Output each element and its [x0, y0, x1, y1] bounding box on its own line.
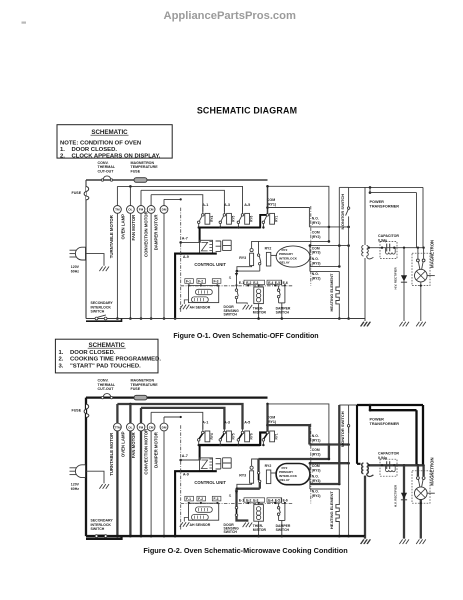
- fig1 motor OL circle: [129, 186, 131, 205]
- fig1 ground HV rectifier: [399, 322, 409, 327]
- fig2 ground HV rectifier: [399, 539, 409, 544]
- fig1 ground at plug: [99, 267, 109, 272]
- fig2 terminals F-1 F-2 F-3: [185, 496, 194, 501]
- svg-text:RY6: RY6: [250, 433, 254, 439]
- fig2 heating element: [336, 489, 339, 536]
- fig2 wire bus riser to RY1: [260, 433, 266, 447]
- note box 1: [57, 125, 172, 158]
- svg-text:RY1: RY1: [275, 216, 279, 222]
- svg-text:A-9: A-9: [183, 255, 189, 259]
- fig1 wire feed to relay chain: [268, 186, 329, 227]
- svg-text:(RY3): (RY3): [312, 479, 321, 483]
- fig2 terminals E row: [244, 498, 265, 502]
- fig1 wire magnetron cathode to ground: [420, 282, 422, 321]
- svg-text:COM: COM: [312, 448, 320, 452]
- svg-text:(RY1): (RY1): [312, 221, 321, 225]
- svg-text:N.O.: N.O.: [312, 272, 319, 276]
- fig1 ground AH sensor: [180, 305, 190, 310]
- svg-text:COM: COM: [312, 464, 320, 468]
- fig2 conv thermal cut-out symbol: [101, 396, 103, 398]
- fig1 wire transformer left to ground: [364, 258, 366, 321]
- svg-text:CONTROL UNIT: CONTROL UNIT: [194, 480, 226, 485]
- fig1 wire bus riser to RY1: [260, 215, 266, 229]
- fig1 ground door sensing switch: [243, 305, 253, 310]
- fig1 wire bottom bus: [86, 318, 365, 320]
- fig1 motor CM circle: [150, 195, 152, 206]
- svg-text:DM: DM: [162, 208, 167, 212]
- svg-text:1.: 1.: [59, 350, 64, 356]
- svg-text:SWITCH: SWITCH: [224, 530, 238, 534]
- svg-text:SWITCH: SWITCH: [91, 527, 105, 531]
- fig2 wire COM(RY3) line: [310, 462, 349, 464]
- fig1 wire TM drop to bus: [116, 213, 118, 318]
- fig1 ground transformer: [360, 322, 370, 327]
- fig2 wire CM drop to bus: [150, 431, 152, 536]
- fig2 relay RY2 primary interlock relay ellipse: [276, 464, 310, 485]
- svg-text:F-1: F-1: [186, 497, 191, 501]
- svg-text:CM: CM: [149, 208, 154, 212]
- fig2 plug 120V 60Hz: [75, 465, 85, 478]
- svg-text:HEATING ELEMENT: HEATING ELEMENT: [329, 273, 334, 311]
- svg-text:RY2: RY2: [265, 247, 272, 251]
- fig2 motor DM circle: [163, 417, 165, 423]
- svg-text:(RY2): (RY2): [312, 276, 321, 280]
- svg-text:F-1: F-1: [186, 280, 191, 284]
- svg-text:OL: OL: [128, 425, 132, 429]
- svg-text:A-7: A-7: [182, 454, 188, 458]
- relay coil box RY6: [245, 213, 250, 224]
- svg-text:AppliancePartsPros.com: AppliancePartsPros.com: [164, 10, 296, 22]
- svg-text:CM: CM: [149, 425, 154, 429]
- svg-text:E-2: E-2: [246, 281, 251, 285]
- svg-text:CUT-OUT: CUT-OUT: [98, 387, 115, 391]
- fig2 ground bus end: [361, 539, 371, 544]
- svg-text:DOOR CLOSED.: DOOR CLOSED.: [70, 350, 116, 356]
- svg-text:N.O.: N.O.: [312, 490, 319, 494]
- svg-text:TURNTABLE MOTOR: TURNTABLE MOTOR: [109, 214, 114, 258]
- fig2 junction RY1 feed: [266, 424, 269, 427]
- fig2 wire HV line: [369, 464, 424, 466]
- svg-text:(RY2): (RY2): [312, 235, 321, 239]
- fig2 switch RY2 contact: [257, 459, 259, 471]
- fig2 HV rectifier diode: [403, 465, 405, 538]
- fig2 monitor switch: [348, 405, 350, 425]
- fig2 wire transformer primary return: [357, 405, 361, 464]
- relay contact RY5: [223, 207, 225, 214]
- fig1 relay RY2 primary interlock relay ellipse: [276, 246, 310, 267]
- fig1 AH sensor box: [189, 286, 219, 303]
- fig2 wire monitor left: [338, 405, 340, 484]
- fig1 wire transformer primary second: [370, 187, 417, 192]
- fig1 low voltage transformer: [216, 241, 221, 251]
- svg-text:HEATING ELEMENT: HEATING ELEMENT: [329, 491, 334, 529]
- svg-text:A-3: A-3: [224, 203, 230, 207]
- svg-text:F-3: F-3: [214, 497, 219, 501]
- svg-text:E-1: E-1: [239, 281, 244, 285]
- fig1 wire FM drop to bus: [140, 213, 142, 318]
- svg-text:E-4: E-4: [268, 281, 273, 285]
- fig2 motor TTM circle: [116, 404, 118, 423]
- svg-text:60Hz: 60Hz: [71, 487, 79, 491]
- svg-text:RELAY: RELAY: [280, 478, 291, 482]
- svg-text:N.O.: N.O.: [312, 217, 319, 221]
- fig2 magnetron temperature fuse symbol: [134, 395, 147, 400]
- fig2 wire L5 feed damper motor: [164, 416, 181, 418]
- svg-text:DOOR CLOSED.: DOOR CLOSED.: [72, 147, 118, 153]
- fig1 wire DM drop to bus: [163, 213, 165, 318]
- relay contact RY1: [267, 187, 269, 213]
- fig1 wire RY2 output to door sense node: [237, 270, 260, 272]
- svg-text:E-5: E-5: [275, 499, 280, 503]
- fig1 motor DM circle: [163, 199, 165, 205]
- fig1 wire AH sensor ground stub: [184, 300, 188, 304]
- fig1 wire contact common bus: [199, 227, 261, 229]
- relay contact RY6: [242, 424, 244, 431]
- fig2 wire FM drop to bus: [140, 431, 142, 536]
- svg-text:(RY1): (RY1): [312, 439, 321, 443]
- fig2 wire AH sensor ground stub: [184, 518, 188, 522]
- svg-text:SWITCH: SWITCH: [224, 313, 238, 317]
- fig2 wire A-7: [181, 459, 199, 461]
- fig2 ground transformer: [360, 539, 370, 544]
- fig2 wire L3 feed fan motor: [141, 408, 224, 430]
- fig2 wire A-9 return to bus: [175, 471, 217, 536]
- svg-text:FAN MOTOR: FAN MOTOR: [131, 214, 136, 241]
- fig1 wire RY1 output: [268, 208, 310, 227]
- fig1 conv thermal cut-out symbol: [101, 179, 103, 181]
- fig2 wire RY2 output to door sense node: [237, 488, 260, 490]
- svg-text:2.: 2.: [60, 154, 65, 160]
- fig1 junction RY1 feed: [266, 206, 269, 209]
- svg-text:OL: OL: [128, 208, 132, 212]
- fig2 wire transformer primary second: [370, 405, 417, 410]
- scan speck: [22, 22, 27, 24]
- fig2 wire bus lower doubled segment: [86, 536, 122, 539]
- svg-text:RY4: RY4: [210, 433, 214, 439]
- fig2 wire bottom bus: [86, 535, 365, 537]
- relay coil box RY1: [270, 213, 275, 224]
- svg-text:MAGNETRON: MAGNETRON: [429, 457, 434, 485]
- fig1 wire bus to control relay coil: [199, 228, 201, 243]
- fig2 transformer secondary coils: [362, 463, 364, 474]
- svg-text:MISTOR: MISTOR: [253, 528, 267, 532]
- svg-text:FM: FM: [139, 208, 144, 212]
- svg-text:FUSE: FUSE: [72, 191, 82, 195]
- svg-text:TTM: TTM: [114, 425, 121, 429]
- fig2 wire RY1 output: [268, 425, 310, 444]
- svg-text:H.V. RECTIFIER: H.V. RECTIFIER: [394, 484, 398, 507]
- svg-text:A-5: A-5: [244, 421, 250, 425]
- fig1 plug 120V 60Hz: [75, 247, 85, 260]
- fig2 control unit boundary: [180, 425, 182, 531]
- fig1 wire to transformer primary: [349, 186, 423, 188]
- fig1 wire to door sensing switch: [236, 271, 238, 285]
- svg-text:POWER: POWER: [370, 200, 385, 204]
- svg-text:NOTE: CONDITION OF OVEN: NOTE: CONDITION OF OVEN: [60, 140, 141, 146]
- svg-text:MAGNETRON: MAGNETRON: [429, 240, 434, 268]
- fig2 wire to door sensing switch: [235, 489, 237, 503]
- svg-text:E-6: E-6: [283, 499, 288, 503]
- fig2 wire TTM drop to bus: [116, 431, 118, 536]
- fig1 motor TM circle: [116, 186, 118, 205]
- svg-text:SWITCH: SWITCH: [276, 528, 290, 532]
- fig2 wire monitor top bracket: [339, 404, 348, 406]
- fig1 wire N.O.(RY3) line: [310, 265, 339, 267]
- fig1 transformer secondary coils: [364, 187, 366, 245]
- fig1 control relay coil box: [200, 240, 213, 253]
- fig2 control relay coil box: [200, 458, 213, 471]
- svg-text:(RY2): (RY2): [312, 494, 321, 498]
- svg-text:TM: TM: [115, 208, 120, 212]
- fig2 wire RY2 coil to relay body: [271, 472, 277, 474]
- svg-text:2.: 2.: [59, 357, 64, 363]
- fig2 wire L2 feed turntable+lamp: [117, 404, 242, 429]
- fig2 wire bus to control relay coil: [199, 445, 201, 460]
- svg-text:S: S: [229, 275, 232, 280]
- fig1 wire N.O.(RY2) line to heater: [310, 270, 339, 272]
- fig2 wire N.O.(RY3) line: [310, 483, 339, 485]
- relay contact RY1: [266, 405, 268, 431]
- svg-text:FUSE: FUSE: [131, 169, 141, 173]
- svg-text:SCHEMATIC DIAGRAM: SCHEMATIC DIAGRAM: [197, 105, 297, 115]
- fig1 wire monitor left: [338, 187, 340, 266]
- svg-text:CONVECTION MOTOR: CONVECTION MOTOR: [143, 428, 148, 475]
- svg-text:E-2: E-2: [246, 499, 251, 503]
- fig1 wire L4 feed convection motor: [151, 195, 203, 212]
- svg-text:(RY3): (RY3): [312, 251, 321, 255]
- svg-text:CUT-OUT: CUT-OUT: [98, 169, 115, 173]
- svg-text:RY2: RY2: [265, 464, 272, 468]
- svg-text:RY5: RY5: [231, 216, 235, 222]
- svg-text:FUSE: FUSE: [131, 387, 141, 391]
- fig2 wire plug ground stub: [86, 471, 104, 483]
- fig1 wire OL drop to bus: [129, 213, 131, 318]
- fig1 wire A-9 return to bus: [175, 254, 217, 319]
- fig1 secondary interlock switch: [95, 317, 98, 320]
- fig1 heating element: [336, 271, 339, 318]
- fig2 wire N.O.(RY1) line: [309, 443, 348, 445]
- fig2 wire L1 top feed: [86, 396, 268, 398]
- relay coil box RY6: [245, 431, 250, 442]
- svg-text:(RY2): (RY2): [312, 453, 321, 457]
- fig1 door sensing switch: [236, 285, 238, 288]
- svg-text:60Hz: 60Hz: [71, 269, 79, 273]
- svg-text:F-3: F-3: [214, 280, 219, 284]
- fig2 ground at plug: [99, 484, 109, 489]
- svg-text:RELAY: RELAY: [280, 260, 291, 264]
- svg-text:DAMPER MOTOR: DAMPER MOTOR: [153, 214, 158, 251]
- note box 2: [55, 339, 158, 373]
- fig2 wire RY3 terminals stub: [309, 463, 311, 489]
- svg-text:0.94μ: 0.94μ: [378, 238, 387, 242]
- fig1 magnetron: [412, 253, 430, 285]
- svg-text:N.O.: N.O.: [312, 257, 319, 261]
- fig1 monitor switch: [348, 187, 350, 207]
- fig2 secondary interlock switch: [95, 535, 98, 538]
- relay contact RY4: [202, 424, 204, 431]
- svg-text:A-1: A-1: [202, 203, 208, 207]
- svg-text:A-7: A-7: [182, 237, 188, 241]
- fig1 wire plug ground stub: [86, 254, 104, 266]
- svg-text:DM: DM: [162, 425, 167, 429]
- fig1 wire bus lower doubled segment: [86, 319, 122, 322]
- svg-text:FM: FM: [139, 425, 144, 429]
- svg-text:E-3: E-3: [253, 281, 258, 285]
- svg-text:SWITCH: SWITCH: [276, 310, 290, 314]
- svg-text:DAMPER MOTOR: DAMPER MOTOR: [153, 431, 158, 468]
- svg-text:SWITCH: SWITCH: [91, 310, 105, 314]
- fig1 wire COM(RY2) line: [259, 240, 329, 242]
- svg-text:RY3: RY3: [239, 256, 246, 260]
- relay coil box RY5: [227, 431, 232, 442]
- fig1 magnetron temperature fuse symbol: [134, 178, 147, 183]
- svg-text:FUSE: FUSE: [72, 408, 82, 412]
- svg-text:AH SENSOR: AH SENSOR: [190, 523, 211, 527]
- fig2 wire OL drop to bus: [129, 431, 131, 536]
- svg-text:(RY1): (RY1): [267, 202, 277, 206]
- svg-text:RY6: RY6: [250, 216, 254, 222]
- svg-text:RY3: RY3: [239, 473, 246, 477]
- fig2 capacitor 0.94u: [380, 459, 397, 476]
- svg-text:N.O.: N.O.: [312, 434, 319, 438]
- svg-text:(RY3): (RY3): [312, 468, 321, 472]
- svg-text:RY5: RY5: [231, 433, 235, 439]
- relay contact RY6: [242, 207, 244, 214]
- svg-text:OVEN LAMP: OVEN LAMP: [121, 431, 126, 457]
- fig1 wire L2 feed turntable+lamp: [117, 186, 242, 211]
- fig1 wire monitor top bracket: [339, 186, 348, 188]
- fig2 wire L4 feed convection motor: [151, 412, 203, 429]
- svg-text:(RY3): (RY3): [312, 261, 321, 265]
- svg-text:COM: COM: [312, 246, 320, 250]
- fig1 wire L5 feed damper motor: [164, 198, 181, 200]
- svg-text:FAN MOTOR: FAN MOTOR: [131, 432, 136, 459]
- fig2 wire feed to relay chain: [268, 404, 329, 445]
- fig1 wire HV line: [369, 247, 424, 249]
- fig1 wire COM(RY3) line: [310, 245, 349, 247]
- fig1 motor FM circle: [140, 190, 142, 205]
- svg-text:A-3: A-3: [224, 421, 230, 425]
- svg-text:F-2: F-2: [198, 280, 203, 284]
- fig1 ground bus end: [361, 322, 371, 327]
- relay coil box RY1: [270, 431, 275, 442]
- svg-text:E-4: E-4: [268, 499, 273, 503]
- svg-text:S: S: [229, 493, 232, 498]
- fig1 fuse symbol: [84, 187, 89, 200]
- fig2 motor CM circle: [150, 412, 152, 423]
- svg-text:OVEN LAMP: OVEN LAMP: [121, 214, 126, 240]
- fig2 damper switch: [278, 503, 280, 507]
- relay contact RY5: [223, 424, 225, 431]
- fig2 wire contact common bus: [199, 444, 261, 446]
- fig2 magnetron: [412, 471, 430, 503]
- svg-text:CONTROL UNIT: CONTROL UNIT: [194, 262, 226, 267]
- relay coil box RY5: [227, 213, 232, 224]
- fig2 wire left line: [85, 398, 87, 536]
- fig2 door sensing switch: [235, 503, 237, 506]
- fig1 capacitor 0.94u: [380, 242, 397, 259]
- svg-text:CONVECTION MOTOR: CONVECTION MOTOR: [143, 210, 148, 257]
- svg-text:Figure O-2. Oven Schematic-Mic: Figure O-2. Oven Schematic-Microwave Coo…: [143, 546, 347, 555]
- svg-text:A-1: A-1: [202, 421, 208, 425]
- fig2 motor OL circle: [129, 404, 131, 423]
- fig1 terminals E row: [244, 280, 265, 284]
- fig1 junction oven lamp on L2: [129, 185, 132, 188]
- svg-text:MISTOR: MISTOR: [253, 310, 267, 314]
- svg-text:E-6: E-6: [283, 281, 288, 285]
- svg-text:TURNTABLE MOTOR: TURNTABLE MOTOR: [109, 432, 114, 476]
- fig2 AH sensor box: [189, 503, 219, 520]
- svg-text:COM: COM: [312, 231, 320, 235]
- svg-text:A-9: A-9: [183, 472, 189, 476]
- svg-text:AH SENSOR: AH SENSOR: [190, 306, 211, 310]
- fig1 wire left line: [85, 180, 87, 319]
- fig1 wire CM drop to bus: [150, 213, 152, 318]
- fig1 wire RY2 coil to relay body: [271, 254, 277, 256]
- svg-text:COOKING TIME PROGRAMMED.: COOKING TIME PROGRAMMED.: [70, 357, 161, 363]
- fig1 wire L1 top feed: [86, 179, 268, 181]
- svg-text:0.94μ: 0.94μ: [378, 456, 387, 460]
- fig1 wire transformer right verticals: [422, 187, 424, 247]
- fig2 fuse symbol: [84, 404, 89, 417]
- fig1 wire RY3 terminals stub: [309, 246, 311, 272]
- fig1 wire link to COM(RY2): [328, 227, 330, 242]
- fig2 wire N.O.(RY2) line to heater: [310, 488, 339, 490]
- fig1 thermistor: [258, 285, 260, 287]
- svg-text:RY4: RY4: [210, 216, 214, 222]
- svg-text:F-2: F-2: [198, 497, 203, 501]
- svg-text:E-5: E-5: [275, 281, 280, 285]
- relay contact RY4: [202, 207, 204, 214]
- fig2 wire transformer left to ground: [364, 476, 366, 539]
- fig2 low voltage transformer: [216, 459, 221, 469]
- svg-text:A-5: A-5: [244, 203, 250, 207]
- svg-text:CLOCK APPEARS ON DISPLAY.: CLOCK APPEARS ON DISPLAY.: [72, 154, 161, 160]
- svg-text:MONITOR SWITCH: MONITOR SWITCH: [340, 411, 345, 447]
- fig1 switch RY2 contact: [258, 241, 260, 253]
- svg-text:H.V. RECTIFIER: H.V. RECTIFIER: [394, 266, 398, 289]
- fig1 control unit boundary: [180, 208, 182, 314]
- relay coil box RY4: [205, 431, 210, 442]
- fig2 wire COM(RY2) line: [259, 458, 329, 460]
- fig2 wire link to COM(RY2): [328, 445, 330, 460]
- svg-text:N.O.: N.O.: [312, 475, 319, 479]
- fig2 ground AH sensor: [180, 522, 190, 527]
- svg-text:MONITOR SWITCH: MONITOR SWITCH: [340, 194, 345, 230]
- svg-text:E-1: E-1: [239, 499, 244, 503]
- svg-text:POWER: POWER: [370, 418, 385, 422]
- relay coil box RY4: [205, 213, 210, 224]
- fig1 HV rectifier diode: [403, 248, 405, 321]
- fig2 wire DM drop to bus: [163, 431, 165, 536]
- fig1 terminals F-1 F-2 F-3: [185, 279, 194, 284]
- fig2 wire to transformer primary: [349, 404, 357, 406]
- fig2 ground door sensing switch: [243, 523, 253, 528]
- fig2 wire transformer right verticals: [422, 405, 424, 465]
- svg-text:1.: 1.: [60, 147, 65, 153]
- svg-text:TRANSFORMER: TRANSFORMER: [370, 422, 400, 426]
- svg-text:3.: 3.: [59, 363, 64, 369]
- svg-text:Figure O-1. Oven Schematic-OFF: Figure O-1. Oven Schematic-OFF Condition: [173, 333, 318, 340]
- fig1 ground magnetron: [416, 322, 426, 327]
- fig2 junction oven lamp on L2: [129, 403, 132, 406]
- fig1 wire N.O.(RY1) line: [309, 226, 348, 228]
- svg-text:"START" PAD TOUCHED.: "START" PAD TOUCHED.: [70, 363, 141, 369]
- svg-text:TRANSFORMER: TRANSFORMER: [370, 205, 400, 209]
- fig2 thermistor: [258, 503, 260, 505]
- svg-text:RY1: RY1: [275, 433, 279, 439]
- svg-text:E-3: E-3: [253, 499, 258, 503]
